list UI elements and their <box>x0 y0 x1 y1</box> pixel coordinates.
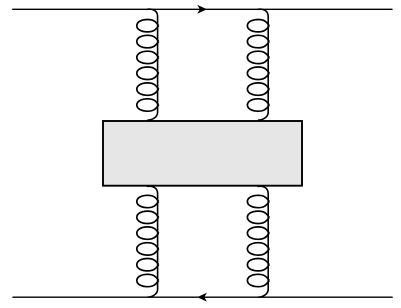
gluon G4 loop 3 <box>247 227 269 239</box>
gluon G1 (top left) <box>137 9 159 120</box>
gluon G4 loop 5 <box>247 259 269 271</box>
gluon G4 spine <box>257 186 268 297</box>
gluon G3 loop 3 <box>137 227 159 239</box>
gluon G2 loop 3 <box>247 51 269 63</box>
gluon G3 loop 2 <box>137 211 159 223</box>
gluon G3 (bottom left) <box>137 186 159 297</box>
gluon G2 spine <box>257 9 268 120</box>
gluon G1 loop 5 <box>137 83 159 95</box>
gluon G3 loop 1 <box>137 195 159 207</box>
gluon G4 loop 4 <box>247 243 269 255</box>
gluon G4 loop 2 <box>247 211 269 223</box>
gluon G3 loop 4 <box>137 243 159 255</box>
arrow top (points right) <box>198 6 206 13</box>
blob (shaded rectangle) <box>103 121 302 186</box>
gluon G4 loop 6 <box>247 274 269 286</box>
gluon G3 loop 5 <box>137 259 159 271</box>
gluon G1 spine <box>147 9 158 120</box>
gluon G2 loop 6 <box>247 99 269 111</box>
gluon G1 loop 2 <box>137 35 159 48</box>
gluon G2 loop 4 <box>247 67 269 80</box>
gluon G3 spine <box>147 186 158 297</box>
gluon G3 loop 6 <box>137 274 159 286</box>
gluon G4 (bottom right) <box>247 186 269 297</box>
fermion line bottom <box>13 296 392 298</box>
arrow bottom (points left) <box>198 294 206 301</box>
gluon G2 loop 1 <box>247 20 269 32</box>
gluon G1 loop 3 <box>137 51 159 63</box>
gluon G4 loop 1 <box>247 195 269 207</box>
gluon G2 loop 2 <box>247 35 269 48</box>
gluon G1 loop 1 <box>137 20 159 32</box>
fermion line top <box>13 8 392 10</box>
gluon G2 (top right) <box>247 9 269 120</box>
gluon G1 loop 4 <box>137 67 159 80</box>
gluon G2 loop 5 <box>247 83 269 95</box>
gluon G1 loop 6 <box>137 99 159 111</box>
